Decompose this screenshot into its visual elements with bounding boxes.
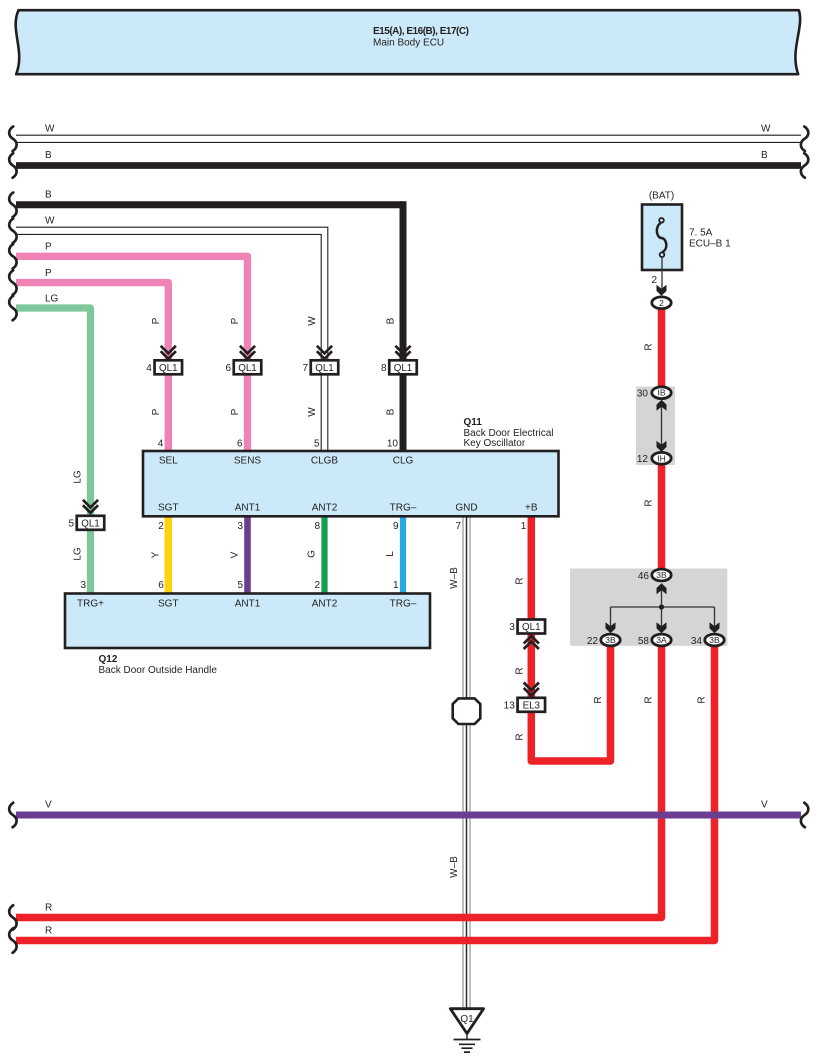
svg-text:3: 3 (237, 521, 243, 532)
svg-text:13: 13 (504, 701, 516, 712)
connector oval IB pin 30 (637, 387, 671, 400)
svg-text:3: 3 (80, 580, 86, 591)
svg-text:L: L (385, 551, 396, 557)
wire W bus (top, full width) (9, 124, 808, 152)
wire V ANT1 (230, 517, 248, 594)
svg-text:1: 1 (521, 521, 527, 532)
svg-text:4: 4 (158, 439, 164, 450)
connector oval 3B pin 34 (691, 634, 724, 647)
wire P to Q11 SEL pin 4 (9, 268, 168, 451)
wire L TRG- (385, 517, 403, 594)
junction block IB / IH (636, 387, 675, 466)
splice octagon on W-B wire (453, 698, 481, 724)
svg-text:P: P (230, 408, 241, 415)
svg-text:ECU–B 1: ECU–B 1 (689, 239, 731, 250)
wire P to Q11 SENS pin 6 (9, 242, 247, 452)
svg-text:58: 58 (638, 636, 650, 647)
svg-text:10: 10 (387, 439, 399, 450)
svg-text:P: P (151, 408, 162, 415)
connector QL1 pin 3 (509, 620, 545, 650)
svg-text:ANT2: ANT2 (312, 599, 338, 610)
svg-text:(BAT): (BAT) (649, 191, 674, 202)
svg-text:3B: 3B (709, 635, 720, 645)
svg-text:6: 6 (225, 363, 231, 374)
svg-text:V: V (761, 800, 768, 811)
svg-text:W: W (45, 124, 55, 135)
svg-text:12: 12 (637, 454, 649, 465)
svg-text:34: 34 (691, 636, 703, 647)
wire B bus (top, full width) (9, 150, 808, 178)
svg-text:R: R (514, 733, 525, 740)
svg-text:2: 2 (158, 521, 164, 532)
svg-text:LG: LG (73, 547, 84, 561)
svg-text:TRG–: TRG– (390, 599, 417, 610)
connector QL1 pin 5 (68, 500, 104, 530)
svg-text:ANT1: ANT1 (235, 599, 261, 610)
svg-text:W–B: W–B (449, 567, 460, 589)
junction block 3B / 3A (570, 569, 727, 646)
svg-text:QL1: QL1 (159, 363, 178, 374)
svg-text:+B: +B (525, 503, 538, 514)
svg-text:R: R (514, 577, 525, 584)
svg-text:3B: 3B (605, 635, 616, 645)
Q12 title label (99, 654, 218, 676)
svg-text:B: B (386, 408, 397, 415)
ECU Q12 Back Door Outside Handle (65, 594, 430, 649)
svg-text:3A: 3A (656, 635, 667, 645)
svg-text:QL1: QL1 (522, 622, 541, 633)
svg-text:W: W (45, 216, 55, 227)
svg-text:3B: 3B (656, 570, 667, 580)
svg-text:TRG–: TRG– (390, 503, 417, 514)
svg-text:R: R (45, 926, 52, 937)
svg-text:R: R (45, 903, 52, 914)
svg-text:TRG+: TRG+ (77, 599, 104, 610)
svg-text:CLGB: CLGB (311, 456, 339, 467)
connector QL1 pin 6 (225, 346, 261, 375)
svg-text:P: P (151, 317, 162, 324)
svg-text:SGT: SGT (158, 599, 179, 610)
svg-text:GND: GND (455, 503, 477, 514)
svg-text:7. 5A: 7. 5A (689, 228, 713, 239)
svg-text:22: 22 (587, 636, 599, 647)
svg-text:6: 6 (237, 439, 243, 450)
wire fuse output pin 2 (651, 257, 666, 296)
svg-text:W: W (761, 124, 771, 135)
connector oval 3A pin 58 (638, 634, 671, 647)
svg-text:V: V (45, 800, 52, 811)
svg-text:Q11: Q11 (464, 417, 483, 428)
connector oval 3B pin 46 (638, 569, 671, 582)
svg-text:LG: LG (73, 470, 84, 484)
svg-text:30: 30 (637, 389, 649, 400)
connector QL1 pin 7 (302, 346, 338, 375)
svg-text:2: 2 (314, 580, 320, 591)
svg-text:6: 6 (158, 580, 164, 591)
connector oval IH pin 12 (637, 452, 671, 465)
svg-text:B: B (386, 317, 397, 324)
wire W-B from GND pin 7 to ground Q1 (449, 517, 470, 1008)
svg-text:LG: LG (45, 294, 59, 305)
svg-text:2: 2 (659, 298, 664, 308)
wire R from Q11 +B pin 1 through QL1/EL3 to junction 22 3B (514, 517, 610, 761)
connector QL1 pin 4 (146, 346, 182, 375)
wire Y SGT (150, 517, 168, 594)
svg-text:QL1: QL1 (238, 363, 257, 374)
wire B to Q11 CLG pin 10 (9, 190, 403, 452)
svg-text:R: R (644, 343, 655, 350)
svg-text:5: 5 (237, 580, 243, 591)
ground Q1 (450, 1009, 483, 1052)
svg-text:7: 7 (455, 521, 461, 532)
svg-text:CLG: CLG (393, 456, 414, 467)
svg-text:W: W (307, 316, 318, 326)
svg-text:B: B (45, 150, 52, 161)
svg-text:Y: Y (150, 551, 161, 558)
wire LG to Q12 TRG+ pin 3 (9, 294, 90, 594)
svg-text:2: 2 (651, 275, 657, 286)
svg-text:ANT2: ANT2 (312, 503, 338, 514)
fuse ECU-B 1 (BAT) (642, 191, 731, 271)
connector oval 2 (652, 297, 671, 309)
svg-text:5: 5 (314, 439, 320, 450)
svg-text:8: 8 (381, 363, 387, 374)
svg-text:7: 7 (302, 363, 308, 374)
svg-text:B: B (45, 190, 52, 201)
svg-text:QL1: QL1 (315, 363, 334, 374)
svg-text:EL3: EL3 (523, 700, 541, 711)
svg-text:R: R (514, 667, 525, 674)
svg-text:9: 9 (393, 521, 399, 532)
svg-text:5: 5 (68, 519, 74, 530)
svg-text:Main Body ECU: Main Body ECU (373, 38, 444, 49)
Main Body ECU banner (16, 10, 800, 74)
connector oval 3B pin 22 (587, 634, 620, 647)
svg-text:46: 46 (638, 571, 650, 582)
svg-text:QL1: QL1 (81, 518, 100, 529)
svg-text:IB: IB (657, 388, 665, 398)
svg-text:IH: IH (657, 453, 666, 463)
wire G ANT2 (307, 517, 325, 594)
svg-text:1: 1 (393, 580, 399, 591)
svg-text:W–B: W–B (449, 856, 460, 878)
svg-text:Key Oscillator: Key Oscillator (464, 438, 526, 449)
wire R IH to 3B (644, 459, 662, 575)
svg-text:W: W (307, 407, 318, 417)
svg-text:ANT1: ANT1 (235, 503, 261, 514)
svg-text:Q1: Q1 (460, 1014, 474, 1025)
svg-text:SGT: SGT (158, 503, 179, 514)
svg-text:R: R (593, 696, 604, 703)
wire R from junction 58 3A to left bus (9, 640, 661, 930)
wire R fuse to IB (644, 303, 662, 392)
wire R from junction 34 3B to left bus (9, 640, 714, 953)
svg-text:Back Door Outside Handle: Back Door Outside Handle (99, 665, 218, 676)
ECU Q11 Back Door Electrical Key Oscillator (143, 451, 559, 516)
svg-text:P: P (45, 268, 52, 279)
svg-text:R: R (644, 696, 655, 703)
svg-text:P: P (45, 242, 52, 253)
svg-text:SEL: SEL (159, 456, 178, 467)
svg-text:SENS: SENS (234, 456, 262, 467)
Q11 title label (464, 417, 554, 449)
svg-text:QL1: QL1 (394, 363, 413, 374)
svg-text:V: V (230, 551, 241, 558)
wire V bus (full width) (9, 800, 808, 828)
svg-text:P: P (230, 317, 241, 324)
svg-text:R: R (697, 696, 708, 703)
svg-text:3: 3 (509, 622, 515, 633)
svg-text:B: B (761, 150, 768, 161)
svg-text:Q12: Q12 (99, 654, 118, 665)
svg-text:8: 8 (314, 521, 320, 532)
connector QL1 pin 8 (381, 346, 417, 375)
svg-text:E15(A), E16(B), E17(C): E15(A), E16(B), E17(C) (373, 26, 469, 37)
wire W to Q11 CLGB pin 5 (9, 216, 328, 452)
svg-text:R: R (644, 499, 655, 506)
svg-text:4: 4 (146, 363, 152, 374)
connector EL3 pin 13 (504, 683, 545, 712)
svg-text:G: G (307, 550, 318, 558)
